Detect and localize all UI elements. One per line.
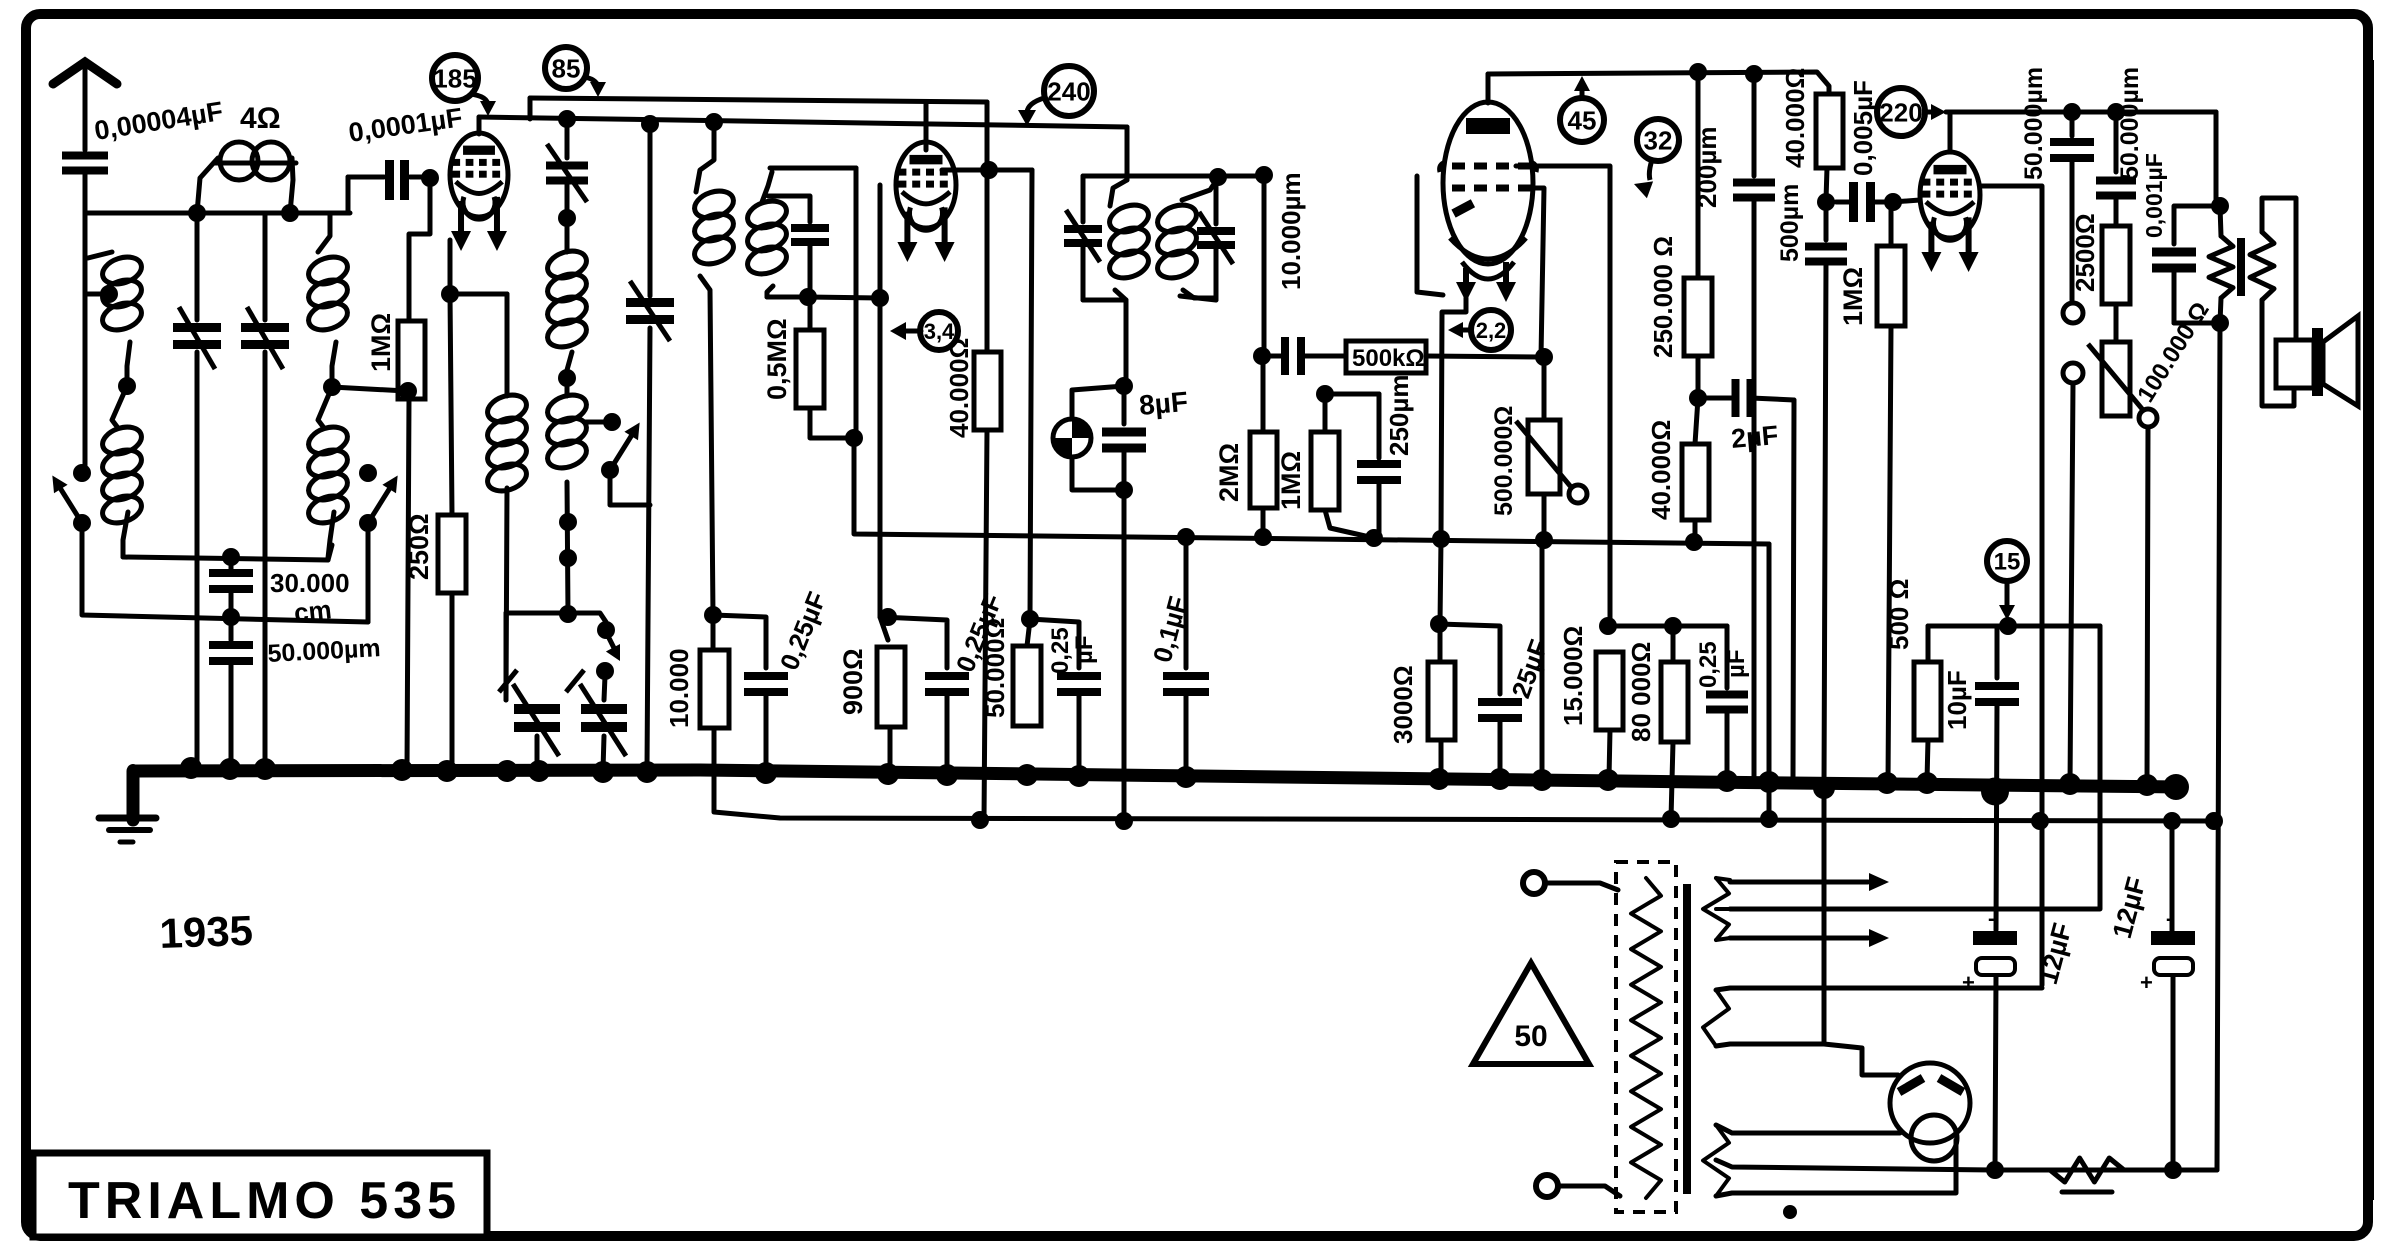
label 0,001uF <box>2141 153 2167 238</box>
svg-text:0,25: 0,25 <box>1047 627 1074 674</box>
resistor R6 900ohm <box>877 617 905 770</box>
wire heater arrow 1 <box>1716 873 1889 891</box>
label 100.000ohm <box>2132 297 2215 407</box>
svg-text:250Ω: 250Ω <box>404 513 434 580</box>
svg-text:-: - <box>1988 908 1995 930</box>
svg-text:1MΩ: 1MΩ <box>366 313 396 372</box>
node L3-L4 <box>323 378 406 396</box>
capacitor C24 500pm <box>1805 202 1847 786</box>
svg-text:500.000Ω: 500.000Ω <box>1490 406 1518 516</box>
svg-text:40.000Ω: 40.000Ω <box>1780 68 1810 168</box>
triangle 50 fuse <box>1473 963 1589 1064</box>
variable capacitor C14 IF1 <box>768 196 829 297</box>
meter 3,4 <box>890 312 958 350</box>
label 2500ohm <box>2070 213 2100 292</box>
svg-text:32: 32 <box>1644 125 1673 155</box>
svg-text:250.000 Ω: 250.000 Ω <box>1648 236 1678 358</box>
resistor R17 1Mohm V4 <box>1877 204 1905 784</box>
wire V2 plate riser <box>924 103 929 150</box>
label 500pm <box>1776 184 1804 262</box>
tube V4 (output) <box>1920 152 1980 272</box>
resistor R10 500.000ohm pot <box>1516 420 1587 540</box>
svg-text:900Ω: 900Ω <box>838 648 868 715</box>
svg-text:4Ω: 4Ω <box>240 102 281 135</box>
coil L7 osc tick <box>544 378 590 614</box>
resistor R7 50.000ohm <box>1013 610 1041 726</box>
meter 85 <box>545 47 606 97</box>
label 12uF a <box>2033 920 2078 988</box>
capacitor 30.000cm <box>209 557 253 617</box>
node IF1 bottom <box>799 288 817 306</box>
label 40.000ohm R15 <box>1646 420 1676 520</box>
svg-text:0,5MΩ: 0,5MΩ <box>762 318 792 400</box>
label 250ohm <box>404 513 434 580</box>
capacitor C29 0,001uF <box>2152 206 2220 323</box>
svg-text:50.000µm: 50.000µm <box>267 634 381 668</box>
label 200pm <box>1692 127 1722 208</box>
label 0,25uF C10 <box>774 587 832 674</box>
node 15 <box>1999 617 2017 635</box>
IF transformer T1 primary coil <box>691 122 737 615</box>
svg-text:µF: µF <box>1723 650 1750 679</box>
label 2uF <box>1730 420 1780 454</box>
svg-text:1MΩ: 1MΩ <box>1276 451 1306 510</box>
coil L3 <box>305 213 351 387</box>
capacitor C25 0,005uF <box>1836 182 1893 222</box>
label 500ohm <box>1884 579 1914 650</box>
power transformer primary winding <box>1631 878 1661 1198</box>
power transformer secondary A <box>1703 878 1729 940</box>
wire fil mid <box>1716 1160 1993 1170</box>
capacitor C12 0,25uF <box>1030 619 1101 772</box>
svg-text:15.000Ω: 15.000Ω <box>1558 626 1588 726</box>
label 500.000ohm <box>1490 406 1518 516</box>
node T1 cathode <box>441 240 507 303</box>
capacitor C19 250pm <box>1357 464 1401 538</box>
resistor R9 1Mohm <box>1311 432 1374 538</box>
resistor hum zigzag <box>2050 1158 2124 1192</box>
trimmer capacitor C8 <box>499 613 568 770</box>
svg-text:2500Ω: 2500Ω <box>2070 213 2100 292</box>
resistor R12 15.000ohm <box>1596 652 1623 778</box>
resistor R13 80.000ohm <box>1661 626 1688 819</box>
variable capacitor C2 <box>241 213 289 775</box>
node T1 grid <box>409 169 439 321</box>
variable capacitor C15 IF2a <box>1064 176 1127 300</box>
IF transformer T1 secondary coil <box>744 172 806 297</box>
wire antenna row <box>85 204 350 470</box>
svg-text:30.000: 30.000 <box>270 568 350 598</box>
label 250pm <box>1384 375 1414 456</box>
switch S4 trimmer <box>596 621 620 680</box>
lower rail junction dots <box>971 810 2223 830</box>
label 10uF <box>1942 670 1972 730</box>
variable capacitor C4 osc <box>546 119 588 218</box>
label 0,25uF C12 <box>1047 627 1098 674</box>
node trimmer feed <box>559 605 606 623</box>
resistor R11 3000ohm <box>1428 615 1455 772</box>
node L1 tap <box>85 285 118 303</box>
wire output to bottom <box>2217 323 2220 1170</box>
label 0,25uF C11 <box>950 589 1008 676</box>
svg-text:50: 50 <box>1514 1020 1547 1053</box>
wire R1 to bus <box>399 382 417 770</box>
wire lower rail <box>714 726 2214 821</box>
node 0,005 cap <box>1817 193 1835 211</box>
output transformer secondary <box>2250 198 2296 406</box>
resistor R1 1Mohm <box>398 321 425 399</box>
capacitor C13 0,1uF <box>1163 537 1209 772</box>
label 8uF <box>1138 386 1189 421</box>
label 10.000cm <box>1276 172 1306 290</box>
wire V3 grid2 <box>1516 166 1617 635</box>
label 3000ohm <box>1388 665 1418 744</box>
wire HT bottom <box>1716 792 1824 1046</box>
capacitor C11 0,25uF <box>880 617 969 770</box>
node 8uF top <box>1115 377 1133 395</box>
svg-text:0,005µF: 0,005µF <box>1848 80 1878 176</box>
label 0,25uF C21 <box>1695 641 1750 688</box>
label 15.000ohm <box>1558 626 1588 726</box>
svg-text:0,001µF: 0,001µF <box>2141 153 2167 238</box>
wire V3 cathode <box>1440 298 1466 624</box>
svg-text:cm: cm <box>292 594 333 628</box>
label 4ohm <box>240 102 281 135</box>
wire filament rail <box>1986 1161 2217 1179</box>
label 0,5Mohm <box>762 318 792 400</box>
terminal mains top <box>1523 872 1618 894</box>
label 1Mohm R1 <box>366 313 396 372</box>
resistor R15 40.000ohm <box>1682 398 1709 542</box>
label 50.000cm b <box>2116 67 2144 180</box>
coil L6 osc cath <box>484 294 530 700</box>
power transformer core <box>1683 884 1691 1194</box>
svg-text:50.000µm: 50.000µm <box>2116 67 2144 180</box>
speaker <box>2276 316 2358 406</box>
svg-text:TRIALMO 535: TRIALMO 535 <box>68 1172 461 1230</box>
label 0,005uF <box>1848 80 1878 176</box>
meter 32 <box>1634 119 1679 198</box>
variable capacitor C1 <box>173 213 221 770</box>
svg-text:500 Ω: 500 Ω <box>1884 579 1914 650</box>
node V4 grid <box>1884 193 1920 211</box>
wire 220 rail <box>1946 103 2216 152</box>
wire fil 1 <box>1716 1125 1900 1133</box>
resistor R18 500ohm <box>1914 626 1941 780</box>
label 50.000cm <box>267 634 381 668</box>
meter 15 <box>1987 541 2027 620</box>
label 12uF b <box>2107 874 2152 942</box>
svg-text:80 000Ω: 80 000Ω <box>1626 642 1656 742</box>
capacitor C10 0,25uF <box>713 615 788 770</box>
svg-text:1935: 1935 <box>159 907 254 957</box>
capacitor C31 12uF <box>2140 821 2195 1170</box>
variable capacitor C5 osc <box>626 124 674 768</box>
wire V4 grid2 <box>1980 186 2042 985</box>
wire rect plate feed <box>1824 1044 1898 1075</box>
bus junction blobs <box>180 757 2158 796</box>
svg-text:-: - <box>2166 908 2173 930</box>
label 0,1uF <box>1147 593 1193 665</box>
coil L5 osc grid <box>544 218 590 387</box>
output transformer core <box>2237 238 2245 296</box>
meter 45 <box>1560 76 1604 142</box>
label 30.000cm <box>270 568 350 628</box>
power transformer dashed box <box>1616 862 1676 1212</box>
wire V3 plate top <box>1488 63 1829 103</box>
ground bus (chassis rail) <box>133 770 2178 820</box>
switch S5 mains <box>2063 303 2083 786</box>
meter 220 <box>1877 88 1946 136</box>
svg-text:15: 15 <box>1994 549 2021 576</box>
coil L4 <box>305 387 351 558</box>
wire det out <box>1253 175 1271 365</box>
capacitor 50.000cm <box>209 617 253 770</box>
switch S1 antenna <box>52 464 91 532</box>
node det grid <box>1316 385 1379 458</box>
capacitor C17 8uF <box>1102 386 1146 821</box>
resistor R14 250.000ohm <box>1684 72 1712 398</box>
meter 240 <box>1018 66 1094 126</box>
wire g-line <box>1608 617 1727 635</box>
svg-text:2,2: 2,2 <box>1476 318 1507 343</box>
resistor R2 250ohm <box>438 294 466 770</box>
svg-text:250µm: 250µm <box>1384 375 1414 456</box>
capacitor C23 200pm <box>1733 74 1775 780</box>
trimmer capacitor C9 <box>566 670 627 770</box>
power transformer secondary B <box>1703 990 1729 1046</box>
wire heater mid <box>1716 907 2100 911</box>
svg-text:0,25: 0,25 <box>1695 641 1722 688</box>
wire HT top <box>1716 988 2042 990</box>
label 50.000ohm R7 <box>980 618 1010 718</box>
IF transformer T2 secondary coil <box>1154 178 1218 298</box>
power transformer secondary C <box>1703 1125 1729 1196</box>
terminal mains bottom <box>1536 1175 1620 1197</box>
label 40.000ohm R16 <box>1780 68 1810 168</box>
ground <box>99 770 156 842</box>
resistor 500kohm box <box>1346 341 1540 373</box>
coil L2 <box>99 386 145 557</box>
switch S2 band <box>359 464 398 532</box>
node R14-R15 <box>1689 389 1707 407</box>
resistor R16 40.000ohm top <box>1816 94 1843 200</box>
svg-text:8µF: 8µF <box>1138 386 1189 421</box>
svg-text:2MΩ: 2MΩ <box>1214 443 1244 502</box>
wire V2 plate to IF2 <box>1125 127 1130 180</box>
svg-text:220: 220 <box>1879 97 1922 127</box>
wire oscillator tap row <box>123 545 332 566</box>
svg-text:500kΩ: 500kΩ <box>1352 345 1425 372</box>
label 250.000ohm <box>1648 236 1678 358</box>
label 50.000cm a <box>2020 67 2048 180</box>
svg-text:µF: µF <box>1071 636 1098 665</box>
wire screen dropper <box>1540 540 1545 778</box>
svg-text:45: 45 <box>1568 105 1597 135</box>
svg-text:40.000Ω: 40.000Ω <box>944 338 974 438</box>
label 1935 <box>159 907 254 957</box>
svg-text:85: 85 <box>552 53 581 83</box>
svg-text:3000Ω: 3000Ω <box>1388 665 1418 744</box>
svg-text:10µF: 10µF <box>1942 670 1972 730</box>
wire long mid rail <box>854 438 1769 551</box>
svg-text:+: + <box>2140 970 2153 995</box>
meter 185 <box>432 55 496 116</box>
capacitor C26 10uF <box>1975 626 2019 930</box>
wire 85V rail <box>530 98 987 119</box>
svg-text:200µm: 200µm <box>1692 127 1722 208</box>
wire V2 grid <box>808 185 897 626</box>
wire IF1 sec top to AVC <box>770 168 856 438</box>
variable capacitor C16 IF2b <box>1180 178 1235 300</box>
title text TRIALMO 535 <box>68 1172 461 1230</box>
capacitor C22 2uF <box>1698 379 1794 778</box>
capacitor C28 50.000cm b <box>2096 112 2136 226</box>
resistor R4 40.000ohm <box>974 352 1001 820</box>
label 1Mohm V4 <box>1838 267 1868 326</box>
capacitor C27 50.000cm <box>2050 112 2094 304</box>
resistor R5 10.000 <box>700 606 729 728</box>
bus junction blobs below <box>1813 774 2189 805</box>
svg-text:40.000Ω: 40.000Ω <box>1646 420 1676 520</box>
svg-text:+: + <box>1962 970 1975 995</box>
node L1-L2 <box>118 377 136 395</box>
svg-text:1MΩ: 1MΩ <box>1838 267 1868 326</box>
title box <box>33 1153 487 1237</box>
resistor R19 2500ohm <box>2102 226 2130 342</box>
wire fil 2 <box>1716 1140 1956 1196</box>
capacitor C30 12uF <box>1962 908 2017 1170</box>
wire V3 grid3 <box>1532 188 1553 420</box>
wire V4 plate rail <box>2211 112 2229 215</box>
wire heater arrow 2 <box>1716 929 1889 947</box>
wire y540 to bus <box>1767 544 1772 819</box>
tube V1 (RF amp) <box>450 133 508 251</box>
capacitor 0,0001uF <box>348 160 428 213</box>
coil 4ohm <box>197 142 296 213</box>
capacitor C20 25uF <box>1439 624 1522 775</box>
antenna <box>53 62 117 150</box>
svg-text:240: 240 <box>1047 76 1090 106</box>
label 25uF <box>1505 636 1554 702</box>
tube V3 (AF pentode) <box>1440 102 1537 302</box>
resistor R20 100.000ohm pot <box>2088 342 2157 786</box>
svg-text:500µm: 500µm <box>1776 184 1804 262</box>
capacitor C18 coupling <box>1264 337 1346 375</box>
label 1Mohm R9 <box>1276 451 1306 510</box>
svg-text:10.000µm: 10.000µm <box>1276 172 1306 290</box>
label 2Mohm <box>1214 443 1244 502</box>
svg-text:50.000Ω: 50.000Ω <box>980 618 1010 718</box>
label 900ohm <box>838 648 868 715</box>
node osc grid <box>558 209 576 227</box>
svg-text:10.000: 10.000 <box>664 648 694 728</box>
node fil dot <box>1783 1205 1797 1219</box>
wire 500 row <box>1730 626 2100 909</box>
coil L1 <box>88 252 145 386</box>
label 0,00004uF <box>92 96 225 146</box>
label 80.000ohm <box>1626 642 1656 742</box>
label 40.000ohm R4 <box>944 338 974 438</box>
tube V2 (IF amp) <box>896 142 956 262</box>
capacitor antenna 0,00004uF <box>62 156 108 214</box>
svg-text:185: 185 <box>433 63 476 93</box>
wire V2 screen node <box>942 102 1032 619</box>
svg-text:50.000µm: 50.000µm <box>2020 67 2048 180</box>
label 0,0001uF <box>347 102 465 148</box>
resistor R8 2Mohm <box>1250 356 1277 537</box>
meter 2,2 <box>1448 310 1511 350</box>
wire S1 to S2 link <box>82 528 368 626</box>
capacitor C21 0,25uF <box>1706 626 1748 778</box>
wire 240V rail <box>479 110 1127 134</box>
IF transformer T2 primary coil <box>1106 180 1152 386</box>
node R3 out <box>845 429 863 447</box>
tube V5 rectifier <box>1890 1063 1970 1161</box>
label 10.000 <box>664 648 694 728</box>
wire IF2 top <box>1127 166 1273 186</box>
output transformer primary <box>2209 206 2233 332</box>
lamp tuning indicator <box>1053 386 1124 490</box>
switch S3 osc <box>584 413 650 505</box>
wire V3 grid in <box>1417 176 1443 295</box>
resistor R3 0,5Mohm <box>796 297 852 438</box>
